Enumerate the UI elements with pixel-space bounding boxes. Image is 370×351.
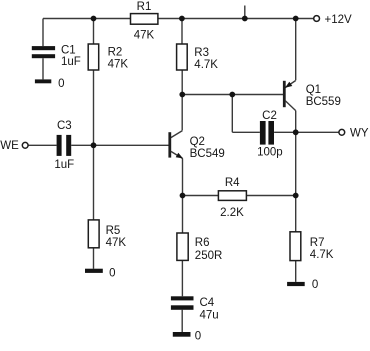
svg-text:C1: C1 [61,44,76,56]
svg-text:R4: R4 [225,177,240,189]
svg-text:Q2: Q2 [190,136,205,148]
svg-text:250R: 250R [195,250,223,262]
svg-text:C3: C3 [57,120,72,132]
svg-text:R7: R7 [310,237,325,249]
svg-text:0: 0 [58,78,64,90]
svg-text:C4: C4 [200,297,215,309]
svg-text:1uF: 1uF [61,56,81,68]
svg-text:47K: 47K [134,30,155,42]
svg-text:0: 0 [195,331,201,343]
svg-text:R6: R6 [195,237,210,249]
svg-text:1uF: 1uF [54,159,74,171]
svg-text:0: 0 [312,279,318,291]
svg-text:C2: C2 [262,110,277,122]
svg-text:R3: R3 [194,47,209,59]
svg-text:2.2K: 2.2K [220,207,244,219]
svg-text:4.7K: 4.7K [194,59,218,71]
svg-text:BC559: BC559 [306,96,341,108]
svg-text:R1: R1 [137,1,152,13]
svg-text:4.7K: 4.7K [310,249,334,261]
svg-text:0: 0 [109,267,115,279]
svg-text:47u: 47u [200,310,219,322]
svg-text:47K: 47K [106,237,127,249]
svg-text:47K: 47K [108,58,129,70]
svg-text:+12V: +12V [325,14,353,26]
svg-text:R5: R5 [106,225,121,237]
svg-text:100p: 100p [257,146,283,158]
svg-text:R2: R2 [108,46,123,58]
svg-text:WY: WY [350,128,369,140]
svg-text:Q1: Q1 [306,84,321,96]
svg-text:BC549: BC549 [190,148,225,160]
svg-text:WE: WE [0,140,19,152]
